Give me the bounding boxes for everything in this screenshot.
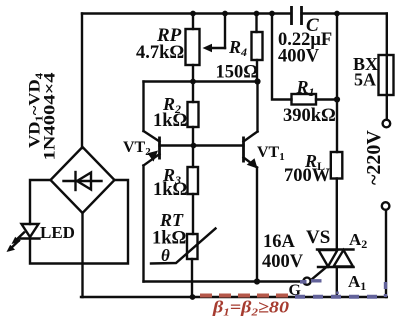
svg-text:4.7kΩ: 4.7kΩ (136, 43, 184, 63)
wire base rail (160, 144, 244, 146)
fuse BX (379, 55, 394, 95)
annotation blue dashes bottom (295, 295, 384, 299)
resistor R3 (192, 146, 194, 168)
capacitor C1 plates (290, 6, 293, 25)
resistor R4 (255, 14, 257, 33)
svg-text:390kΩ: 390kΩ (283, 106, 336, 126)
LED arrows (15, 233, 25, 242)
node dot top wiper (222, 11, 228, 17)
wire bridge left to LED (30, 180, 51, 224)
transistor VT1 (256, 82, 258, 132)
wire lower terminal down (385, 210, 387, 297)
wire fuse to terminal (386, 95, 388, 120)
svg-text:1kΩ: 1kΩ (153, 180, 187, 200)
potentiometer RP (192, 14, 194, 30)
wire right rail to fuse (386, 14, 388, 56)
wire gate diagonal (311, 267, 326, 280)
svg-text:θ: θ (161, 246, 170, 265)
thermistor RT (187, 234, 198, 259)
resistor R2 (192, 82, 194, 103)
svg-text:VS: VS (306, 227, 330, 248)
svg-text:1kΩ: 1kΩ (153, 111, 187, 131)
transistor VT2 (142, 82, 144, 132)
wire left rail (81, 14, 83, 149)
svg-text:5A: 5A (354, 70, 376, 90)
wire bottom rail (81, 296, 387, 298)
RP wiper arrow (224, 14, 226, 49)
wire collector rail (144, 80, 258, 82)
wire bridge bottom (81, 213, 83, 297)
wire LED bottom loop (30, 180, 128, 264)
annotation red dashes (200, 294, 291, 298)
svg-text:LED: LED (40, 223, 75, 242)
annotation blue swoosh at G (300, 280, 307, 284)
node dot R1 right (334, 96, 340, 102)
svg-text:1N4004×4: 1N4004×4 (42, 73, 59, 161)
wire top rail (82, 12, 290, 14)
node dot RP bottom (190, 79, 196, 85)
svg-text:~220V: ~220V (363, 130, 385, 185)
wire branch x272 (272, 14, 292, 100)
svg-text:RT: RT (159, 210, 184, 230)
bridge diode symbol (64, 180, 102, 182)
node dot top R1 branch (269, 11, 275, 17)
node dot base rail (191, 143, 197, 149)
wire main right branch x337 (336, 14, 338, 153)
node dot top RP (190, 11, 196, 17)
gate terminal circle G (303, 278, 310, 285)
node dot VT1 emitter (254, 278, 260, 284)
triac VS (317, 248, 354, 250)
node dot RT bottom (190, 294, 196, 300)
wire gate rail (144, 280, 304, 282)
terminal lower circle (382, 202, 390, 210)
node dot top right (334, 11, 340, 17)
terminal upper circle (383, 120, 391, 128)
LED D1 (22, 224, 39, 237)
svg-text:700W: 700W (284, 166, 331, 186)
svg-text:150Ω: 150Ω (216, 63, 259, 83)
resistor RL (331, 152, 343, 179)
annotation blue tick at triac bottom (336, 292, 339, 295)
svg-text:400V: 400V (262, 252, 304, 272)
wire cap to right corner (302, 12, 387, 14)
svg-text:400V: 400V (278, 47, 320, 67)
node dot top R4 (254, 11, 260, 17)
annotation blue vertical (384, 282, 387, 297)
node dot R4 bottom (254, 78, 260, 84)
bridge rectifier VD1-VD4 (51, 147, 115, 213)
resistor R1 (292, 94, 317, 105)
svg-text:16A: 16A (263, 232, 296, 252)
